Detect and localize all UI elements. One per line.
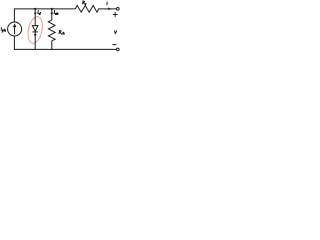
current arrow i [108,8,111,11]
label plus [113,12,118,17]
svg-text:v: v [114,29,117,36]
wire left column lower [13,36,15,50]
node dot diode branch [34,8,36,10]
node dot resistor branch [51,8,53,10]
svg-text:i: i [106,2,108,7]
wire shunt resistor bottom [51,41,53,50]
current arrow i_d [34,9,37,15]
resistor R_sh [48,20,55,41]
terminal bottom [117,48,120,51]
diode D [32,26,38,37]
wire shunt resistor top [51,14,53,20]
wire diode top [34,14,36,26]
current arrow i_sh [50,9,53,15]
current source I_ph [8,22,22,36]
wire top rail [14,8,73,10]
svg-text:id: id [37,11,40,16]
svg-text:iph: iph [1,28,6,33]
svg-text:Rs: Rs [81,1,87,6]
wire left column upper [13,9,15,22]
label minus [112,44,116,46]
terminal top [117,8,120,11]
highlight oval around diode [26,15,45,44]
resistor R_s [73,6,100,13]
svg-text:Rsh: Rsh [57,31,64,36]
wire top right segment [100,8,117,10]
svg-text:ish: ish [54,11,59,16]
wire diode bottom [34,36,36,50]
wire bottom rail [14,48,117,50]
